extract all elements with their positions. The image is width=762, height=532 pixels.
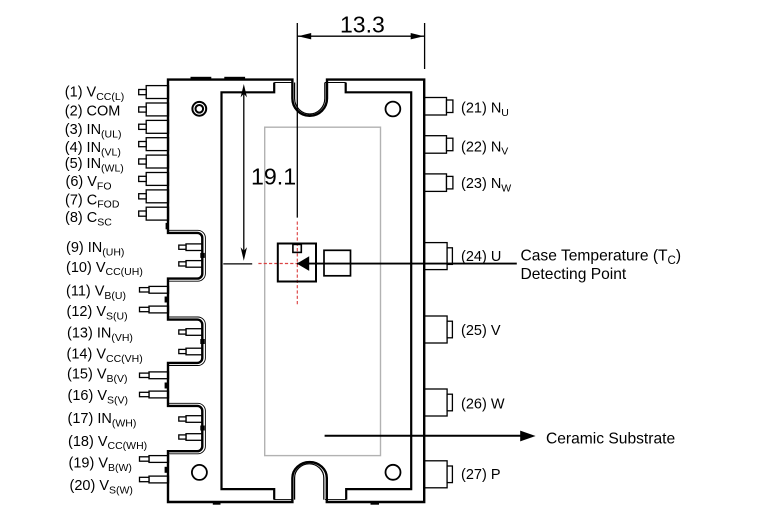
svg-text:Case Temperature (TC): Case Temperature (TC) — [521, 247, 682, 267]
dim 19.1 bottom arrow — [241, 247, 247, 260]
right extension line — [424, 23, 426, 69]
left pin labels — [65, 85, 147, 497]
dim 19.1 line — [243, 88, 245, 256]
ceramic leader arrow — [520, 431, 535, 442]
inner rim right — [346, 83, 412, 500]
svg-text:13.3: 13.3 — [340, 12, 385, 38]
dim 13.3 right arrow — [411, 33, 424, 39]
svg-text:19.1: 19.1 — [251, 164, 296, 190]
top-left screw hole (double circle) — [192, 102, 206, 116]
top edge mold tab 1 — [191, 77, 212, 80]
svg-text:(27) P: (27) P — [461, 467, 501, 483]
rim thin segments — [274, 83, 346, 500]
case temperature annotation — [521, 247, 682, 283]
svg-text:Ceramic Substrate: Ceramic Substrate — [546, 431, 675, 448]
pin 10 — [179, 261, 203, 268]
edge tick between pins 15-16 — [165, 383, 169, 389]
pin 1 — [139, 86, 169, 99]
pin 4 — [139, 138, 169, 151]
bottom edge mold tab 1 — [213, 502, 221, 505]
pin 7 — [139, 190, 169, 203]
edge tick between pins 19-20 — [165, 467, 169, 473]
edge tick below pin 8 — [166, 223, 169, 229]
pin 20 — [140, 476, 169, 483]
bottom-right hole — [386, 465, 401, 480]
pin 26 — [424, 389, 452, 416]
pin 2 — [139, 103, 169, 116]
bottom notch inner line — [295, 464, 324, 500]
center extension line — [296, 23, 298, 218]
dim 13.3 left arrow — [298, 33, 311, 39]
package outer outline — [168, 80, 424, 502]
pin 25 — [424, 316, 452, 343]
recess 1 wall tick — [200, 253, 205, 258]
pin 17 — [179, 416, 203, 423]
pin 8 — [139, 207, 169, 220]
case temp leader arrow — [297, 256, 309, 271]
pin 23 — [424, 174, 453, 192]
svg-text:(25) V: (25) V — [461, 323, 501, 339]
detect chip small square — [293, 244, 301, 252]
edge tick between pins 11-12 — [165, 297, 169, 303]
red crosshair horizontal — [258, 263, 333, 265]
pin 24 — [424, 243, 452, 270]
bottom edge mold tab 2 — [371, 502, 380, 505]
pin 11 — [140, 286, 169, 293]
left pins group — [139, 86, 203, 483]
svg-text:(24) U: (24) U — [461, 249, 501, 265]
pin 16 — [140, 391, 169, 398]
recess 3 wall tick — [200, 426, 205, 431]
recess 3 thin contour — [168, 403, 205, 454]
pin 13 — [179, 329, 203, 336]
right pin labels — [461, 101, 511, 484]
pin 3 — [139, 120, 169, 133]
pin 5 — [139, 155, 169, 168]
pin 9 — [179, 244, 203, 251]
pin 15 — [140, 372, 169, 379]
pin 18 — [179, 434, 203, 441]
pin 22 — [424, 136, 453, 154]
recess 1 thin contour — [168, 230, 205, 281]
pin 6 — [139, 173, 169, 186]
ceramic substrate rectangle — [265, 127, 381, 455]
inner rim left — [222, 83, 275, 500]
red crosshair vertical — [296, 222, 298, 305]
detect chip body — [278, 244, 316, 282]
pin 21 — [424, 98, 453, 116]
recess 2 thin contour — [168, 317, 205, 366]
pin 27 — [424, 461, 452, 488]
dim 13.3 line — [297, 35, 424, 37]
bottom-left hole — [192, 465, 207, 480]
top edge mold tab 2 — [224, 77, 245, 80]
ceramic leader line — [325, 435, 522, 437]
top notch inner line — [295, 83, 325, 114]
second chip square — [324, 250, 351, 275]
dim 19.1 top arrow — [241, 84, 247, 97]
right pins group — [424, 98, 453, 488]
pin 12 — [140, 306, 169, 313]
recess 2 wall tick — [200, 339, 205, 344]
pin 14 — [179, 348, 203, 355]
svg-text:(26) W: (26) W — [461, 396, 505, 412]
dim 19.1 extension tick — [223, 263, 252, 265]
svg-text:Detecting Point: Detecting Point — [521, 266, 627, 283]
top-right hole — [386, 102, 401, 117]
pin 19 — [140, 456, 169, 463]
svg-text:(22) NV: (22) NV — [461, 139, 508, 157]
case temp leader line — [297, 263, 517, 265]
svg-text:(2) COM: (2) COM — [65, 104, 121, 120]
